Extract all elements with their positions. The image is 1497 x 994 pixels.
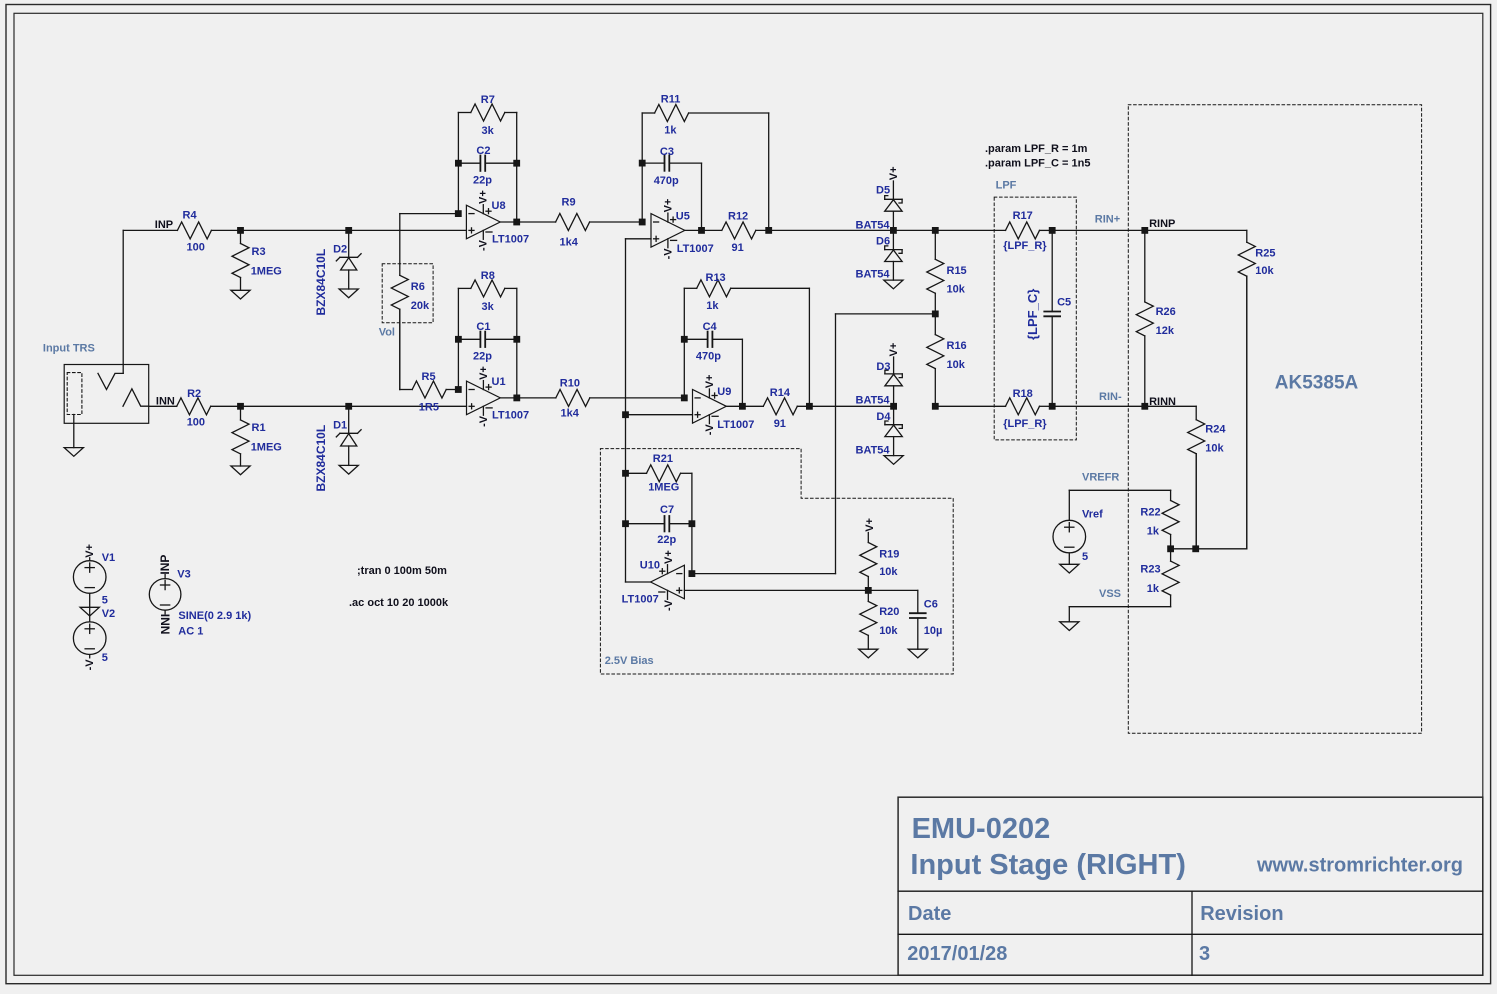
svg-text:-V: -V [478, 239, 490, 251]
junction R4/R3 node [237, 227, 244, 234]
junction R2/R1 node [237, 403, 244, 410]
svg-text:1MEG: 1MEG [648, 482, 679, 494]
svg-text:R9: R9 [562, 196, 576, 208]
svg-text:.param LPF_R = 1m: .param LPF_R = 1m [985, 143, 1088, 155]
svg-text:R12: R12 [728, 210, 748, 222]
ground below D6 [884, 280, 903, 289]
wire U8 feedback right vertical [516, 113, 518, 223]
wire U1 output [500, 397, 556, 399]
resistor R14 [763, 387, 893, 430]
resistor R23 [1140, 549, 1179, 607]
svg-text:AK5385A: AK5385A [1275, 373, 1359, 394]
junction INP/D2 node [345, 227, 352, 234]
capacitor C4 [684, 321, 742, 362]
svg-text:R2: R2 [187, 388, 201, 400]
junction U10 inverting node [689, 570, 696, 577]
svg-text:INP: INP [155, 219, 173, 231]
wire U8 feedback left vertical [457, 113, 459, 214]
svg-text:AC 1: AC 1 [178, 626, 203, 638]
svg-text:C2: C2 [476, 145, 490, 157]
junction R13 output node [806, 403, 813, 410]
wire signal to LPF [935, 229, 1005, 231]
connector J1 Input TRS jack [64, 365, 149, 448]
svg-text:V+: V+ [864, 518, 876, 532]
svg-text:Vol: Vol [379, 327, 395, 339]
voltage source V2 [73, 608, 115, 664]
resistor R9 [556, 196, 643, 248]
svg-text:V+: V+ [888, 166, 900, 180]
resistor R15 [927, 230, 967, 314]
svg-text:{LPF_R}: {LPF_R} [1003, 240, 1047, 252]
svg-text:R18: R18 [1013, 388, 1033, 400]
svg-text:INN: INN [156, 395, 175, 407]
2.5V Bias box [600, 449, 953, 674]
svg-text:R25: R25 [1255, 247, 1275, 259]
diode D1 [333, 406, 361, 465]
svg-text:LPF: LPF [996, 180, 1017, 192]
svg-text:10k: 10k [947, 284, 966, 296]
svg-text:1MEG: 1MEG [251, 265, 282, 277]
svg-text:5: 5 [102, 652, 108, 664]
svg-text:12k: 12k [1156, 325, 1175, 337]
svg-text:R11: R11 [661, 94, 681, 106]
ground below D4 [884, 456, 903, 465]
svg-text:U9: U9 [717, 386, 731, 398]
resistor R17 [1003, 210, 1052, 252]
svg-text:22p: 22p [657, 534, 676, 546]
svg-text:C3: C3 [660, 146, 674, 158]
Vol box [382, 264, 433, 323]
title block box [898, 797, 1483, 975]
op-amp U8 [466, 190, 529, 251]
svg-text:R17: R17 [1013, 210, 1033, 222]
svg-text:U10: U10 [640, 560, 660, 572]
svg-text:10k: 10k [879, 625, 898, 637]
svg-text:D6: D6 [876, 235, 890, 247]
wire U10 plus input rail [684, 589, 917, 591]
junction R15/R16 node [932, 311, 939, 318]
wire INN node to D1 [241, 405, 349, 407]
svg-text:C7: C7 [660, 504, 674, 516]
junction R22/R23 node [1167, 545, 1174, 552]
svg-text:R24: R24 [1205, 423, 1226, 435]
svg-text:V+: V+ [704, 375, 716, 389]
svg-text:22p: 22p [473, 350, 492, 362]
resistor R11 [642, 94, 769, 137]
svg-text:{LPF_C}: {LPF_C} [1025, 289, 1040, 340]
junction bias rail / U9 plus [622, 411, 629, 418]
ground between V1 and V2 [80, 607, 99, 616]
junction D3/D4 signal node [890, 403, 897, 410]
junction R16 bottom node [932, 403, 939, 410]
wire Vref to ground [1068, 553, 1070, 564]
svg-text:D3: D3 [876, 361, 890, 373]
ground below D1 [339, 465, 358, 474]
junction C7 right node [689, 520, 696, 527]
svg-text:R19: R19 [879, 548, 899, 560]
junction D5/D6 signal node [890, 227, 897, 234]
title block divider row1 [898, 890, 1483, 892]
svg-text:R5: R5 [422, 371, 436, 383]
wire V2 bottom lead [89, 655, 91, 658]
svg-text:R16: R16 [947, 340, 967, 352]
svg-text:D1: D1 [333, 420, 347, 432]
svg-text:{LPF_R}: {LPF_R} [1003, 418, 1047, 430]
wire INP node to D2 [241, 229, 349, 231]
svg-text:D5: D5 [876, 185, 890, 197]
svg-text:-V: -V [704, 424, 716, 436]
svg-text:.param LPF_C = 1n5: .param LPF_C = 1n5 [985, 158, 1090, 170]
resistor R24 [1188, 406, 1227, 549]
svg-text:22p: 22p [473, 174, 492, 186]
svg-text:VSS: VSS [1099, 588, 1121, 600]
junction U1 output node [513, 395, 520, 402]
resistor R26 [1136, 230, 1175, 406]
svg-text:V+: V+ [663, 550, 675, 564]
svg-text:1k4: 1k4 [560, 236, 579, 248]
svg-text:RINP: RINP [1149, 218, 1175, 230]
svg-text:U5: U5 [676, 210, 690, 222]
wire INN net from jack [149, 405, 177, 407]
resistor R8 [458, 270, 516, 313]
svg-text:R8: R8 [481, 270, 495, 282]
op-amp U9 [693, 375, 755, 436]
wire signal to R15 [893, 229, 935, 231]
resistor R2 [177, 388, 241, 429]
wire R21 right vertical [691, 473, 693, 573]
capacitor C2 [458, 145, 516, 186]
junction U8 output node [513, 219, 520, 226]
junction INN/D1 node [345, 403, 352, 410]
junction C1 right node [513, 336, 520, 343]
wire VSS [1069, 607, 1170, 622]
wire C4 right vertical [741, 339, 743, 406]
ground below D2 [339, 289, 358, 298]
wire R13 right vertical [808, 288, 810, 406]
svg-text:R22: R22 [1140, 506, 1160, 518]
svg-text:R14: R14 [770, 387, 791, 399]
resistor R12 [722, 210, 894, 254]
svg-text:10µ: 10µ [924, 625, 943, 637]
junction U9 inverting node [681, 395, 688, 402]
junction C3 left node [639, 160, 646, 167]
wire V1 to V2 [89, 593, 91, 622]
resistor R16 [927, 314, 967, 406]
resistor R20 [860, 590, 900, 649]
svg-text:LT1007: LT1007 [492, 410, 529, 422]
resistor R10 [556, 377, 685, 419]
svg-text:R20: R20 [879, 606, 899, 618]
svg-text:V+: V+ [888, 343, 900, 357]
svg-text:D4: D4 [876, 411, 891, 423]
svg-text:2.5V Bias: 2.5V Bias [605, 655, 654, 667]
svg-text:V2: V2 [102, 608, 115, 620]
diode D5 [856, 181, 903, 231]
wire V1 top lead [89, 558, 91, 561]
svg-text:10k: 10k [1255, 265, 1274, 277]
svg-text:C6: C6 [924, 598, 938, 610]
svg-text:V+: V+ [84, 544, 96, 558]
svg-text:BAT54: BAT54 [856, 219, 891, 231]
diode D3 [856, 357, 903, 407]
AK5385A box [1128, 105, 1421, 734]
svg-text:V3: V3 [177, 568, 190, 580]
junction R11 output node [765, 227, 772, 234]
resistor R6 [391, 275, 430, 389]
svg-text:Input Stage (RIGHT): Input Stage (RIGHT) [910, 849, 1185, 881]
wire C3 right vertical [701, 163, 703, 230]
resistor R19 [860, 533, 900, 591]
op-amp U1 [467, 366, 530, 427]
wire U5 plus input from bias rail [626, 238, 652, 240]
svg-text:EMU-0202: EMU-0202 [912, 813, 1051, 845]
svg-text:BAT54: BAT54 [856, 268, 891, 280]
svg-text:;tran 0 100m 50m: ;tran 0 100m 50m [357, 565, 447, 577]
svg-text:.ac oct 10 20 1000k: .ac oct 10 20 1000k [349, 597, 449, 609]
svg-text:3: 3 [1199, 943, 1210, 965]
wire R6 bottom to R5 [400, 309, 412, 389]
wire U9 feedback left vertical [683, 288, 685, 398]
resistor R21 [626, 453, 692, 494]
voltage source Vref [1053, 508, 1103, 563]
wire U9 output [726, 405, 763, 407]
junction C2 right node [513, 160, 520, 167]
svg-text:R21: R21 [653, 453, 673, 465]
wire signal to LPF lower [935, 405, 1005, 407]
ground below R3 [231, 290, 250, 299]
wire VREFR [1069, 490, 1170, 520]
junction R15 top node [932, 227, 939, 234]
wire RIN- to RINN [1052, 405, 1145, 407]
wire RINP to R25 [1145, 229, 1247, 231]
capacitor C5 [1044, 230, 1071, 406]
svg-text:R7: R7 [481, 94, 495, 106]
svg-text:R4: R4 [183, 210, 198, 222]
svg-text:1k: 1k [1147, 525, 1160, 537]
svg-text:R23: R23 [1140, 564, 1160, 576]
wire U8 inverting input branch [400, 214, 459, 276]
title block divider row2 [898, 933, 1483, 935]
svg-text:RIN+: RIN+ [1095, 214, 1120, 226]
svg-text:Date: Date [908, 903, 951, 925]
junction RINN node [1141, 403, 1148, 410]
junction U5 inverting node [639, 219, 646, 226]
svg-text:Vref: Vref [1082, 508, 1103, 520]
LPF box [994, 197, 1076, 440]
diode D4 [856, 406, 903, 456]
junction C1 left node [455, 336, 462, 343]
wire R15/R16 node to U10 feedback [692, 314, 935, 574]
junction U1 inverting node [455, 386, 462, 393]
wire divider node to R25/R24 [1171, 276, 1247, 549]
svg-text:C5: C5 [1057, 296, 1071, 308]
wire R11 right vertical [768, 113, 770, 230]
svg-text:R26: R26 [1156, 306, 1176, 318]
svg-text:VREFR: VREFR [1082, 471, 1119, 483]
wire V3 top lead [164, 575, 166, 579]
svg-text:Revision: Revision [1200, 903, 1283, 925]
resistor R5 [412, 371, 458, 414]
resistor R3 [232, 230, 282, 290]
svg-text:www.stromrichter.org: www.stromrichter.org [1256, 854, 1463, 876]
svg-text:100: 100 [187, 417, 205, 429]
svg-text:BZX84C10L: BZX84C10L [314, 249, 328, 316]
svg-text:1k: 1k [1147, 583, 1160, 595]
resistor R1 [232, 406, 282, 466]
junction C3 output node [698, 227, 705, 234]
svg-text:INP: INP [158, 555, 172, 575]
op-amp U10 [622, 550, 685, 611]
resistor R7 [458, 94, 516, 137]
svg-text:LT1007: LT1007 [492, 234, 529, 246]
svg-text:3k: 3k [482, 301, 495, 313]
resistor R13 [684, 272, 809, 312]
svg-text:LT1007: LT1007 [677, 243, 714, 255]
svg-text:LT1007: LT1007 [622, 593, 659, 605]
svg-text:SINE(0 2.9 1k): SINE(0 2.9 1k) [178, 610, 251, 622]
svg-text:R10: R10 [560, 377, 580, 389]
svg-text:10k: 10k [1205, 442, 1224, 454]
svg-text:V+: V+ [478, 366, 490, 380]
capacitor C7 [626, 504, 692, 546]
wire U1 feedback right vertical [516, 288, 518, 398]
svg-text:U8: U8 [492, 200, 506, 212]
wire INP net from jack to R4 [123, 230, 177, 373]
junction C4 left node [681, 336, 688, 343]
svg-text:2017/01/28: 2017/01/28 [907, 943, 1007, 965]
svg-text:LT1007: LT1007 [717, 419, 754, 431]
svg-text:BAT54: BAT54 [856, 395, 891, 407]
wire U8 output [500, 221, 555, 223]
wire RINN to R24 [1145, 405, 1196, 407]
op-amp U5 [651, 199, 714, 260]
svg-text:V1: V1 [102, 552, 115, 564]
svg-text:R13: R13 [706, 272, 726, 284]
diode D2 [333, 230, 361, 289]
svg-text:-V: -V [662, 248, 674, 260]
wire bias rail vertical [625, 239, 627, 582]
svg-text:-V: -V [84, 659, 96, 671]
svg-text:V+: V+ [662, 199, 674, 213]
ground at jack sleeve [64, 448, 83, 457]
wire U5 feedback left vertical [641, 113, 643, 222]
ground below C6 [908, 649, 927, 658]
resistor R25 [1238, 230, 1275, 548]
wire U10 output [626, 581, 651, 583]
junction R24 bottom node [1192, 545, 1199, 552]
resistor R22 [1140, 490, 1179, 549]
svg-text:R3: R3 [252, 246, 266, 258]
capacitor C6 [910, 590, 942, 649]
wire RIN+ to RINP [1052, 229, 1145, 231]
junction R17/C5 node [1049, 227, 1056, 234]
svg-text:V+: V+ [478, 190, 490, 204]
svg-text:BAT54: BAT54 [856, 445, 891, 457]
junction U8 inverting node [455, 210, 462, 217]
capacitor C1 [458, 321, 516, 362]
svg-text:100: 100 [187, 242, 205, 254]
resistor R18 [1003, 388, 1052, 430]
wire V3 bottom lead [164, 610, 166, 614]
capacitor C3 [642, 146, 701, 187]
title block divider column [1191, 891, 1193, 975]
wire INP to U8 noninverting input [349, 229, 467, 231]
svg-text:R6: R6 [411, 281, 425, 293]
svg-text:BZX84C10L: BZX84C10L [314, 425, 328, 492]
svg-text:R1: R1 [252, 422, 266, 434]
svg-text:INN: INN [158, 614, 172, 635]
resistor R4 [177, 210, 240, 254]
svg-text:3k: 3k [482, 125, 495, 137]
svg-text:C4: C4 [703, 321, 718, 333]
svg-text:-V: -V [663, 599, 675, 611]
svg-text:-V: -V [478, 415, 490, 427]
junction C7 left node [622, 520, 629, 527]
svg-text:Input TRS: Input TRS [43, 343, 95, 355]
junction C4 output node [739, 403, 746, 410]
svg-text:10k: 10k [879, 566, 898, 578]
svg-text:1k4: 1k4 [561, 408, 580, 420]
svg-text:1R5: 1R5 [419, 401, 439, 413]
junction R21 left node [622, 470, 629, 477]
svg-text:5: 5 [102, 594, 108, 606]
svg-text:470p: 470p [696, 350, 721, 362]
svg-text:5: 5 [1082, 551, 1088, 563]
junction R18/C5 node [1049, 403, 1056, 410]
voltage source V3 [149, 568, 190, 610]
svg-text:R15: R15 [947, 265, 967, 277]
svg-text:91: 91 [774, 418, 786, 430]
ground at VSS [1060, 622, 1079, 631]
wire U1 feedback left vertical [457, 288, 459, 389]
junction C2 left node [455, 160, 462, 167]
svg-text:1MEG: 1MEG [251, 441, 282, 453]
ground below Vref [1060, 564, 1079, 573]
ground below R20 [859, 649, 878, 658]
junction R19/R20 node [865, 587, 872, 594]
svg-text:91: 91 [732, 242, 744, 254]
wire INN to U1 noninverting input [349, 405, 467, 407]
voltage source V1 [73, 552, 115, 606]
svg-text:C1: C1 [476, 321, 490, 333]
svg-text:D2: D2 [333, 244, 347, 256]
wire U9 plus input from bias rail [626, 414, 693, 416]
svg-text:10k: 10k [947, 359, 966, 371]
wire U5 output [685, 229, 722, 231]
svg-text:1k: 1k [706, 300, 719, 312]
svg-text:1k: 1k [664, 125, 677, 137]
svg-text:RIN-: RIN- [1099, 391, 1122, 403]
svg-text:470p: 470p [654, 175, 679, 187]
svg-text:U1: U1 [492, 376, 506, 388]
junction RINP node [1141, 227, 1148, 234]
diode D6 [856, 230, 903, 280]
ground below R1 [231, 466, 250, 475]
svg-text:20k: 20k [411, 300, 430, 312]
